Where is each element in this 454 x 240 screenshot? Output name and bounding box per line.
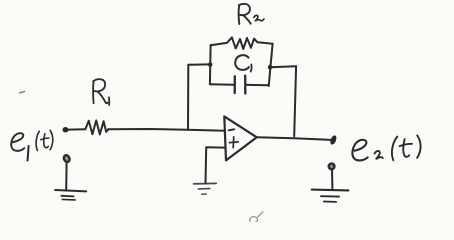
- wire G1: [65, 162, 67, 191]
- op-amp U1 triangle: [224, 116, 256, 160]
- op-amp plus sign: [229, 137, 238, 148]
- label e2(t): [352, 135, 420, 160]
- capacitor C1 left lead: [210, 83, 234, 86]
- op-amp minus sign: [229, 129, 235, 130]
- capacitor C1 right lead: [247, 84, 269, 86]
- wire feedback tap vertical: [187, 65, 189, 130]
- label R2: [239, 4, 264, 24]
- resistor R1: [85, 120, 108, 134]
- label R1: [93, 79, 109, 105]
- wire G3: [331, 169, 333, 189]
- wire R1 to op-amp inverting input: [108, 129, 225, 131]
- wire loop left vertical: [209, 45, 212, 84]
- ground G3: [312, 189, 349, 192]
- label e1(t): [11, 130, 53, 160]
- wire op-amp output: [257, 137, 331, 140]
- stray squiggle bottom center: [250, 212, 263, 222]
- stray dash left of R1: [20, 92, 25, 94]
- node junction right: [268, 65, 272, 70]
- resistor R2: [211, 37, 273, 49]
- label C1: [235, 55, 251, 71]
- wire tap to loop left: [188, 63, 210, 65]
- wire loop right vertical: [269, 44, 273, 86]
- wire input node to R1: [68, 128, 85, 130]
- wire output branch vertical: [294, 66, 296, 136]
- wire right stub to output branch: [270, 66, 296, 67]
- ground G2: [194, 183, 216, 194]
- capacitor C1 plates: [234, 76, 236, 93]
- node output dot: [329, 135, 337, 146]
- ground G3 circle below output node: [329, 164, 335, 170]
- ground G1: [55, 190, 86, 191]
- ground G1 circle below input node: [63, 154, 71, 163]
- wire plus input to ground: [206, 147, 225, 183]
- node junction left: [208, 62, 212, 67]
- node input dot: [63, 127, 69, 132]
